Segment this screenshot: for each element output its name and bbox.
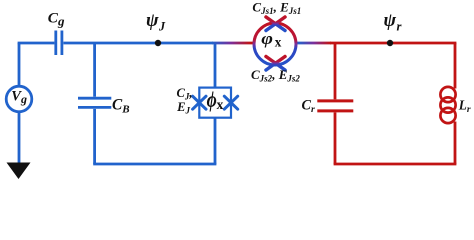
svg-text:CB: CB: [112, 97, 130, 116]
svg-text:x: x: [217, 97, 224, 112]
svg-text:Cg: Cg: [48, 10, 65, 29]
svg-text:CJs2, EJs2: CJs2, EJs2: [251, 67, 300, 83]
svg-text:ψr: ψr: [384, 10, 403, 33]
svg-text:Lr: Lr: [458, 98, 471, 115]
svg-text:ϕ: ϕ: [207, 88, 217, 113]
svg-text:EJ: EJ: [176, 100, 190, 115]
svg-text:φ: φ: [261, 30, 273, 48]
svg-text:CJs1, EJs1: CJs1, EJs1: [252, 0, 301, 16]
svg-text:Vg: Vg: [11, 88, 27, 106]
svg-text:x: x: [275, 35, 282, 50]
svg-text:ψJ: ψJ: [146, 10, 166, 33]
svg-text:Cr: Cr: [302, 98, 315, 115]
